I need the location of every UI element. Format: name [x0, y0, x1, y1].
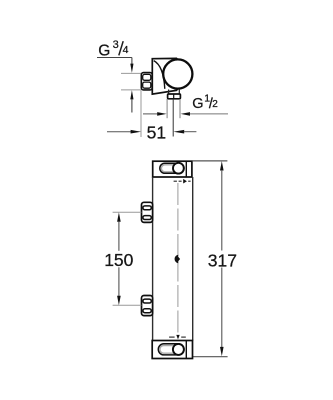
- extension line nut bottom: [121, 89, 141, 91]
- label G 3/4: [98, 39, 128, 59]
- dashed joint line above bottom cap with small arrow: [169, 335, 186, 340]
- dashed joint line below top cap with small arrow: [174, 179, 191, 184]
- extension line left (wall face) for 51: [140, 91, 142, 138]
- extension lines 317: [192, 160, 227, 162]
- svg-text:G: G: [192, 96, 203, 112]
- svg-text:2: 2: [212, 99, 218, 110]
- centerline: [177, 183, 179, 336]
- neck below body: [168, 90, 170, 95]
- pipe outline (grey): [166, 99, 168, 118]
- label G 1/2: [192, 92, 218, 112]
- body column right edge: [192, 177, 194, 341]
- svg-text:317: 317: [208, 250, 237, 270]
- dimension 317: [220, 161, 224, 170]
- inlet nut 2 (lower left): [142, 296, 153, 316]
- hose fitting below knob: [168, 94, 181, 99]
- leader underline of G 3/4: [97, 57, 132, 59]
- inlet nut 1 (upper left): [142, 202, 153, 222]
- leader corner + dimension line G3/4 (vertical, x=131.9): [131, 58, 133, 65]
- body column left edge: [152, 177, 154, 341]
- pipe centerline / extension: [172, 99, 174, 137]
- dimension 51: [107, 131, 131, 133]
- mid marker on centerline: [175, 255, 181, 264]
- extension lines 150: [113, 211, 142, 213]
- valve body wedge (top view): [152, 58, 177, 94]
- arrowhead down to nut top: [130, 64, 133, 73]
- inner curve of body: [154, 61, 165, 89]
- svg-text:4: 4: [123, 44, 129, 56]
- svg-text:150: 150: [104, 250, 133, 270]
- bottom end cap: [152, 341, 192, 359]
- union nut G3/4 (top view): [141, 73, 152, 90]
- top end cap: [153, 161, 192, 177]
- dim line tail below: [131, 99, 133, 113]
- arrowhead up to nut bottom: [130, 90, 133, 99]
- dimension G1/2 arrows: [143, 113, 157, 115]
- extension line nut top: [121, 72, 141, 74]
- svg-text:G: G: [98, 42, 110, 59]
- svg-text:1: 1: [204, 92, 210, 104]
- svg-text:3: 3: [113, 39, 119, 51]
- svg-text:51: 51: [147, 123, 166, 143]
- knob circle (top view): [163, 59, 192, 88]
- dimension 150: [117, 212, 121, 221]
